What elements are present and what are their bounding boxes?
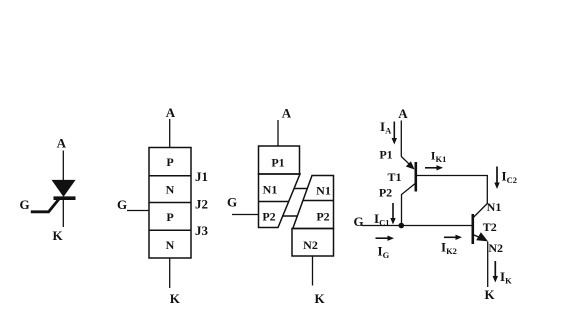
gate lead wire (fig1) [31, 199, 59, 212]
cathode lead wire (fig2) [169, 258, 171, 288]
T1 base wire to right branch [416, 176, 488, 205]
current arrow IK1 [425, 165, 443, 170]
svg-text:P2: P2 [316, 210, 329, 224]
svg-text:K: K [170, 291, 181, 306]
left column outline (N1/P2 sheared, fig3) [259, 174, 301, 228]
svg-text:P: P [166, 210, 173, 224]
svg-text:J2: J2 [195, 197, 208, 212]
anode lead wire (fig2) [169, 119, 171, 148]
four-layer stack outline box [149, 148, 191, 259]
junction J1 divider line [149, 175, 191, 177]
P2 connection line across gap (fig3) [282, 215, 298, 217]
svg-text:G: G [117, 197, 127, 212]
svg-text:K: K [52, 228, 63, 243]
cathode lead wire (fig1) [62, 200, 64, 227]
thyristor anode triangle [53, 181, 75, 196]
N1 connection line across gap (fig3) [294, 188, 308, 190]
svg-text:J3: J3 [195, 223, 209, 238]
svg-text:P: P [166, 155, 173, 169]
svg-text:G: G [354, 214, 364, 229]
anode lead wire (fig1) [62, 151, 64, 183]
cathode lead wire (fig3) [312, 256, 314, 286]
anode wire (fig4) [400, 121, 402, 157]
gate lead wire (fig2) [127, 210, 149, 212]
svg-text:G: G [19, 197, 29, 212]
junction node dot [399, 223, 405, 229]
transistor T2 emitter with arrow [473, 232, 488, 241]
right column outline (N1/P2 sheared, fig3) [293, 176, 334, 229]
anode lead wire (fig3) [277, 120, 279, 146]
svg-text:G: G [227, 195, 237, 210]
transistor T2 base bar [471, 214, 474, 244]
svg-text:N1: N1 [487, 200, 502, 214]
svg-text:A: A [282, 106, 292, 121]
svg-text:N2: N2 [488, 241, 503, 255]
cathode wire (fig4) [487, 242, 489, 288]
current arrow IC1 [390, 203, 395, 225]
svg-text:K: K [484, 287, 495, 302]
current arrow IK2 [444, 235, 462, 240]
svg-text:P2: P2 [262, 210, 275, 224]
junction J2 divider line [149, 202, 191, 204]
transistor T1 collector lead [402, 183, 416, 226]
svg-text:A: A [166, 105, 176, 120]
svg-text:J1: J1 [195, 169, 208, 184]
svg-text:P1: P1 [379, 148, 392, 162]
svg-text:P1: P1 [271, 156, 284, 170]
current arrow IC2 [494, 167, 499, 190]
junction J3 divider line [149, 229, 191, 231]
svg-text:N: N [166, 183, 175, 197]
layer box P1 (fig3) [259, 146, 300, 174]
divider N1/P2 right (fig3) [303, 200, 333, 202]
gate lead wire (fig3) [232, 214, 259, 216]
layer box N2 (fig3) [292, 229, 334, 257]
svg-text:K: K [314, 291, 325, 306]
svg-text:P2: P2 [379, 186, 392, 200]
transistor T1 base bar [414, 162, 417, 192]
current arrow IK [493, 261, 498, 283]
svg-text:N1: N1 [263, 183, 278, 197]
svg-text:N: N [166, 238, 175, 252]
gate wire (fig4) [362, 225, 473, 227]
thyristor cathode bar [54, 196, 76, 200]
divider N1/P2 left (fig3) [259, 201, 289, 203]
svg-text:A: A [57, 136, 67, 151]
svg-text:T2: T2 [483, 220, 497, 234]
transistor T2 collector lead [473, 204, 488, 219]
svg-text:N1: N1 [316, 184, 331, 198]
svg-text:N2: N2 [303, 238, 318, 252]
svg-text:A: A [398, 106, 408, 121]
current arrow IG [376, 236, 395, 241]
current arrow IA [392, 122, 397, 145]
transistor T1 emitter with arrow [401, 157, 414, 170]
svg-text:T1: T1 [387, 170, 401, 184]
